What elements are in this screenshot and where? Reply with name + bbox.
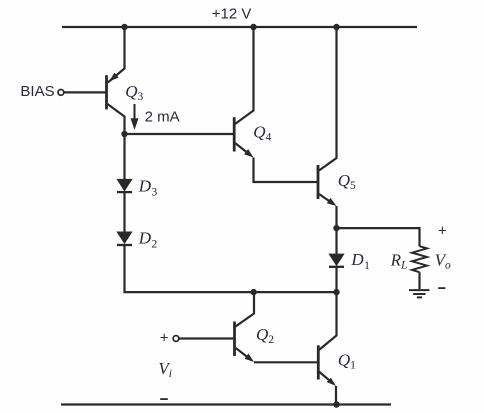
wire D2 down and across to node B [125, 245, 337, 292]
label minus (Vi) [160, 398, 168, 400]
label minus (Vo) [438, 287, 445, 289]
wire Q5 emitter diagonal [319, 194, 333, 204]
wire bottom rail [61, 403, 391, 405]
2 mA current arrow [131, 104, 138, 128]
svg-text:Q2: Q2 [256, 325, 274, 346]
node dot B left (Q2 collector) [250, 289, 256, 295]
svg-text:Vo: Vo [435, 251, 451, 272]
svg-text:D1: D1 [350, 250, 370, 272]
ground [409, 290, 430, 297]
diode D2 [117, 232, 132, 245]
svg-text:Q4: Q4 [253, 122, 271, 143]
svg-text:Vi: Vi [158, 359, 172, 380]
transistor Q2 bar [233, 322, 236, 357]
node dot B right (D1 / Q1) [333, 289, 339, 295]
transistor Q3 (PNP) bar [105, 75, 108, 109]
wire Q1 emitter diagonal [319, 372, 332, 383]
node dot top rail / Q4 [250, 24, 256, 30]
transistor Q2 emitter arrow [245, 354, 255, 363]
wire Q4 emitter down and across to Q5 base [254, 158, 318, 183]
wire top +12V rail [62, 26, 417, 28]
wire BIAS to Q3 base [63, 91, 106, 93]
wire Vi terminal to Q2 base [178, 337, 234, 339]
wire node C across and down to RL [337, 228, 420, 246]
diode D1 [329, 254, 344, 267]
svg-text:+12 V: +12 V [212, 6, 252, 23]
svg-text:RL: RL [390, 251, 408, 272]
wire Q2 collector up to node on B wire [236, 293, 255, 327]
wire Q5 emitter down to node C [335, 206, 337, 229]
transistor Q4 emitter arrow [244, 149, 254, 158]
transistor Q4 bar [233, 117, 236, 151]
diode D3 [117, 179, 132, 192]
wire node A to Q4 base [125, 133, 234, 135]
svg-text:+: + [438, 222, 447, 239]
svg-text:Q5: Q5 [338, 171, 356, 192]
wire D1 to node B [335, 267, 337, 292]
transistor Q1 bar [317, 345, 320, 379]
transistor Q1 emitter arrow [327, 378, 336, 386]
resistor RL [412, 246, 427, 272]
svg-text:+: + [160, 330, 169, 347]
transistor Q5 bar [317, 165, 320, 199]
svg-text:BIAS: BIAS [20, 83, 54, 100]
node dot top rail / Q3 [121, 24, 127, 30]
wire node B down to Q1 collector [319, 292, 337, 350]
wire Q2 emitter diagonal [236, 348, 250, 359]
transistor Q3 emitter arrow [109, 73, 118, 82]
terminal Vi circle [173, 336, 179, 342]
wire RL bottom to ground [418, 272, 420, 289]
wire Q3 emitter to +12V rail [108, 26, 125, 83]
node dot C (Q5 emitter) [333, 225, 339, 231]
node dot top rail / Q5 [333, 24, 339, 30]
wire Q3 collector down to node A [108, 104, 125, 134]
terminal BIAS circle [58, 90, 64, 96]
svg-text:Q1: Q1 [338, 351, 356, 372]
node dot A (Q3 collector) [121, 131, 127, 137]
wire Q1 emitter vertical to bottom rail [335, 386, 337, 405]
transistor Q5 emitter arrow [327, 198, 337, 206]
svg-text:D2: D2 [138, 229, 158, 251]
wire Q4 collector to +12V rail [235, 26, 254, 124]
wire Q4 emitter diagonal [235, 143, 250, 155]
svg-text:D3: D3 [138, 176, 158, 198]
wire node C down to D1 [335, 228, 337, 255]
svg-text:Q3: Q3 [125, 82, 143, 103]
wire D3 to D2 [123, 192, 125, 233]
wire Q2 emitter to Q1 base [254, 361, 317, 363]
wire node A down to D3 [123, 133, 125, 181]
node dot bottom rail [333, 401, 339, 407]
wire Q5 collector to +12V rail [319, 26, 337, 171]
svg-text:2 mA: 2 mA [145, 109, 180, 126]
